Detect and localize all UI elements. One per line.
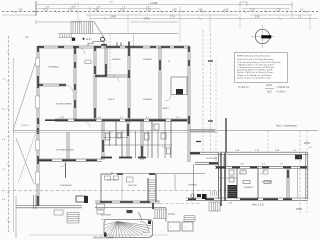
extension line x90 [89,6,91,33]
dimension label row5 [110,17,302,19]
straight stair run hatch horizontal [153,209,166,219]
svg-text:1.35: 1.35 [172,10,177,12]
interior wall x160 [159,46,161,121]
svg-text:BERN: Wohnhaus Nr.12 Musterstr: BERN: Wohnhaus Nr.12 Musterstr. [237,55,271,58]
right wall lower [188,131,190,162]
left dimension line [13,58,15,232]
veranda wall poche2 [59,84,66,86]
wing small hatch [211,191,217,196]
svg-text:ZIMMER: ZIMMER [143,59,152,61]
svg-text:ZIMMER: ZIMMER [143,99,152,101]
terrace dark corner [76,196,86,202]
small fixture rects left [97,204,105,214]
svg-text:= 6.06 m: = 6.06 m [276,91,285,94]
core wall x165 [164,120,166,158]
right vertical chain x210 [210,34,212,153]
svg-text:Stand: 12.03. rev. 04.04 Mst: Stand: 12.03. rev. 04.04 Mst 1:100 [237,76,271,79]
core wall x122 [121,131,123,158]
svg-text:TERRASSE: TERRASSE [60,184,72,187]
svg-text:DIELE: DIELE [108,99,115,101]
svg-text:ABST.: ABST. [163,107,169,110]
radiator fixture [85,60,91,64]
right vertical chain x203 [202,30,204,153]
legend text [237,55,281,80]
svg-text:WOHNEN ESSEN: WOHNEN ESSEN [56,150,74,152]
annex rooms top wall y167 [215,166,308,168]
stair arrow curve [138,213,142,221]
main top wall [38,46,189,48]
dashed line y190.5 [2,190,232,192]
right small marks2 [296,208,302,210]
veranda wall poche [38,84,43,86]
annex stair core treads [228,187,237,196]
core hall wall y145 [102,144,172,146]
terrace step box [54,210,63,215]
stair shaft wall x148 [147,178,149,202]
chain tick [208,60,213,62]
stair bottom line [58,33,109,35]
veranda bottom wall y85 [38,83,66,85]
stair diagonal cut [94,22,106,42]
svg-text:ZIMMER: ZIMMER [112,59,121,61]
svg-text:53.2: 53.2 [267,91,272,94]
core wall x103 [102,119,104,160]
secondary line y132 [13,131,218,133]
extension line x180 [179,6,181,42]
section diagonal line 3 [18,121,40,183]
dim texts above y120 wall [60,117,180,119]
right exterior steps hatch [209,202,220,211]
annex small dark block [295,155,302,160]
svg-text:+2.97: +2.97 [86,38,93,41]
lower left wall y160 [38,159,102,162]
window sill marks left wall [36,58,40,184]
wall y130 right stub [190,129,215,131]
left chain ticks [7,52,9,222]
bottom mid connector walls [165,208,167,222]
left lot line bottom [15,196,17,238]
dark wall between runs [152,203,154,209]
chain tick2 [196,141,201,143]
fan stair arc [140,222,149,231]
fan corner dark left [104,233,107,237]
dimension line row5 [90,18,318,20]
dimension line row6 mid [130,21,178,23]
core wall x116 [115,120,117,146]
annex stair core dark [228,185,238,198]
dimension line top row2 right [242,8,290,10]
lower small stair hatch [184,216,195,222]
bottom mid dark chunk [117,173,123,175]
main mid wall y120 [45,119,190,122]
svg-text:= 196.92 m2: = 196.92 m2 [276,86,290,89]
svg-text:M 1:100: M 1:100 [143,232,151,234]
extension line x310 [309,14,311,30]
mid right symbols circle [191,194,194,197]
svg-text:bestehend Whnfl. neu Whnfl. um: bestehend Whnfl. neu Whnfl. umgeb. [237,69,273,72]
core dark band y158 [101,157,146,159]
dimension line row4 right [250,14,312,16]
annex window fixtures [243,181,271,184]
entry steps band [58,34,74,38]
svg-text:x: x [9,228,10,230]
dimension line row6 left [36,21,80,23]
svg-text:323.9: 323.9 [266,84,273,87]
fan corner dark right [148,221,151,225]
dimension line top row2 left [36,8,160,10]
stair run treads vertical [148,180,156,200]
chain tick y121 [208,120,213,122]
core wall x158 [157,131,159,158]
svg-text:1.35: 1.35 [18,10,23,12]
top wall poche segments [38,46,184,48]
door arcs various [60,95,265,174]
row5 tick marks [104,17,311,19]
svg-text:WOHNEN: WOHNEN [262,182,272,184]
annex dim text row2 [240,164,284,166]
core wall x152 [151,120,153,158]
core wall x142 [141,119,143,160]
bottom left terrace wall [16,206,82,208]
extension line x292 [291,2,293,18]
fraction bar [265,88,274,90]
wall chunk under column [101,44,107,46]
connector wall2 [168,213,175,215]
left outer wall [37,46,39,206]
svg-text:1.25: 1.25 [276,10,281,12]
bottom wall y202 [95,201,160,203]
chimney dark [202,194,207,199]
extension line x240 [239,2,241,28]
veranda right wall x75 [74,46,76,120]
svg-text:GRUNDRISS 1.OG: GRUNDRISS 1.OG [93,238,113,240]
terrace corner poche [84,196,88,203]
right dashed chain x300 [299,131,301,215]
annex right wall [306,153,308,199]
shaft top dark chunk [149,173,155,175]
svg-text:AUFGANG: AUFGANG [101,214,112,217]
core wall x148 [147,131,149,158]
compass cross horizontal [251,36,274,38]
bottom mid left wall x101 [100,184,102,202]
stair top line [101,219,151,221]
dashed segment y203 [160,203,200,205]
mid right arrow block [197,194,201,197]
dimension chain row3 dashes [2,11,318,13]
extension line x128 [127,14,129,34]
annex right light wall x298 [297,167,299,198]
svg-text:2.05: 2.05 [198,10,203,12]
door arc hall [113,76,119,82]
core wall x171 [170,120,172,158]
bottom mid rooms wall y174 [112,173,205,175]
svg-text:ZIMMER: ZIMMER [244,187,253,189]
dimension labels row2 [45,7,150,9]
compass cross vertical [262,25,264,48]
column circle at top wall [101,37,105,41]
svg-text:2.35: 2.35 [94,10,99,12]
legend box [235,53,288,83]
overhang chain x110 [109,34,111,78]
bottom faint line [30,234,168,236]
core wall x109 [109,131,111,146]
svg-text:VERANDA: VERANDA [48,66,59,69]
compass north bar [261,35,271,38]
svg-text:2.10: 2.10 [43,10,48,12]
svg-text:1.OG bestehend Whg 4 Zi neu 2x: 1.OG bestehend Whg 4 Zi neu 2x2 Whg tota… [237,61,281,64]
fan staircase treads [104,222,153,238]
bay protrusion top [88,42,104,47]
closet room right [171,77,187,95]
svg-text:1.20: 1.20 [68,10,73,12]
core wall x128 [127,119,129,158]
svg-text:2.10: 2.10 [250,10,255,12]
svg-text:SITZPLATZ: SITZPLATZ [206,157,218,160]
extension line x78 [77,2,79,21]
bottom mid step outline [101,172,112,184]
interior wall x106 upper [105,46,107,76]
annex left wall [218,153,220,199]
svg-text:3.485: 3.485 [110,17,116,19]
core wall x135 [135,131,137,158]
svg-text:O mittl. Fl.: O mittl. Fl. [238,86,249,89]
annex top wall y153 [190,152,308,154]
bath fixtures small rects [106,124,171,154]
svg-text:x: x [185,227,186,229]
core hall wall y137 [104,137,128,139]
dimension chain row3 labels [18,10,304,12]
annex dim text [235,150,297,152]
right outer wall [188,46,190,131]
door post ticks [116,43,118,47]
level marker dot [83,38,85,40]
svg-text:1.50: 1.50 [224,10,229,12]
bold section vertical x226 upper [225,118,227,153]
bottom left terrace wall vertical [34,195,37,209]
svg-text:Abst. z. Nachbargrst.: Abst. z. Nachbargrst. [276,125,298,128]
left dimension labels [2,79,6,201]
exterior stair top hatched [71,22,94,34]
right vertical chain x216 [215,60,217,153]
svg-text:14,485: 14,485 [150,2,158,5]
dimension chain row3 ticks [13,10,307,12]
dimension tick [291,2,293,7]
bottom small rooms [168,222,193,231]
roof overhang line [109,33,178,35]
svg-text:WOHNZIMMER: WOHNZIMMER [56,104,72,106]
interior wall x129 [128,46,130,121]
svg-text:Umbau EG und 1.OG Whg-Einteil: Umbau EG und 1.OG Whg-Einteilung [237,58,274,61]
annex interior wall x288 [287,167,289,199]
x129 wall top poche [128,42,130,47]
interior wall y76 [95,75,130,77]
annex interior wall y178 [219,177,237,179]
dimension tick [79,20,81,25]
veranda door arc [66,85,73,92]
annex corner hatch [216,156,226,166]
scale note text [238,84,290,94]
right dashed chain x307 [306,131,308,215]
annex top fixture2 [263,170,268,174]
wing wall y163 [195,161,219,163]
top right bracket [240,2,247,6]
closet poche [176,89,183,95]
dimension line row4 [86,14,238,16]
wing-annex dark wall pair right [224,153,226,201]
dimension tick [35,20,37,25]
annex wc fixtures [229,170,246,182]
extension line x210 [209,14,211,34]
svg-text:ZI.: ZI. [168,61,171,63]
corridor door arc [79,48,85,54]
lower-left divider x68 [67,132,69,159]
dimension tick [35,1,37,16]
property line y130 [13,129,318,131]
svg-text:KUECHE: KUECHE [128,185,137,187]
connecting wing wall x175 [174,174,176,190]
terrace stair hatch [67,213,79,224]
dimension tick mid [74,3,76,10]
entry door dark [72,38,75,41]
stair shaft wall x156 [155,174,157,202]
wing-annex dark wall pair left [220,153,222,206]
terrace divider wall x65 [65,162,67,178]
svg-text:1.10: 1.10 [120,10,125,12]
section diagonal line [13,58,37,130]
right small marks [304,142,310,144]
section diagonal line 2 [16,138,34,184]
annex interior wall x258 [257,167,259,199]
wing left wall x193 [193,164,195,199]
svg-text:2.74: 2.74 [170,17,175,19]
svg-text:1.Obergeschoss unverm. m2 BGF: 1.Obergeschoss unverm. m2 BGF ges. [237,66,275,69]
dimension line top row1 [36,4,292,6]
svg-text:ZIMMER: ZIMMER [188,185,197,187]
dashed chain x268 [267,131,269,152]
fan staircase outline [104,220,153,238]
interior wall x95 [94,46,96,121]
svg-text:Wohnfl. 196.92 m2 in Whg A u.: Wohnfl. 196.92 m2 in Whg A u. B ges [237,71,274,74]
annex interior wall x237 [236,167,238,199]
svg-text:- Whg A und B je 2 Zi mit Kuec: - Whg A und B je 2 Zi mit Kueche Bad [237,63,274,66]
svg-text:Whg. 3.5 Zi: Whg. 3.5 Zi [252,205,264,207]
wing bottom wall [186,197,215,199]
bottom mid room divider [121,174,123,201]
dark chunk above fan [127,210,133,213]
svg-text:4.30 2.2: 4.30 2.2 [21,125,29,127]
svg-text:2.20: 2.20 [146,10,151,12]
compass rose circle [255,29,269,43]
svg-text:5.05: 5.05 [255,17,260,19]
overhang vertical x133 [133,34,135,47]
left dimension chain [8,36,10,232]
left wall poche [37,46,39,206]
kitchen fixtures row [105,176,134,182]
svg-text:x: x [170,227,171,229]
annex bottom wall y199 [215,198,308,200]
svg-text:⌜NT 1: ⌜NT 1 [143,17,150,21]
dimension line row4 left [2,14,36,16]
bottom wall y208 [95,207,166,209]
